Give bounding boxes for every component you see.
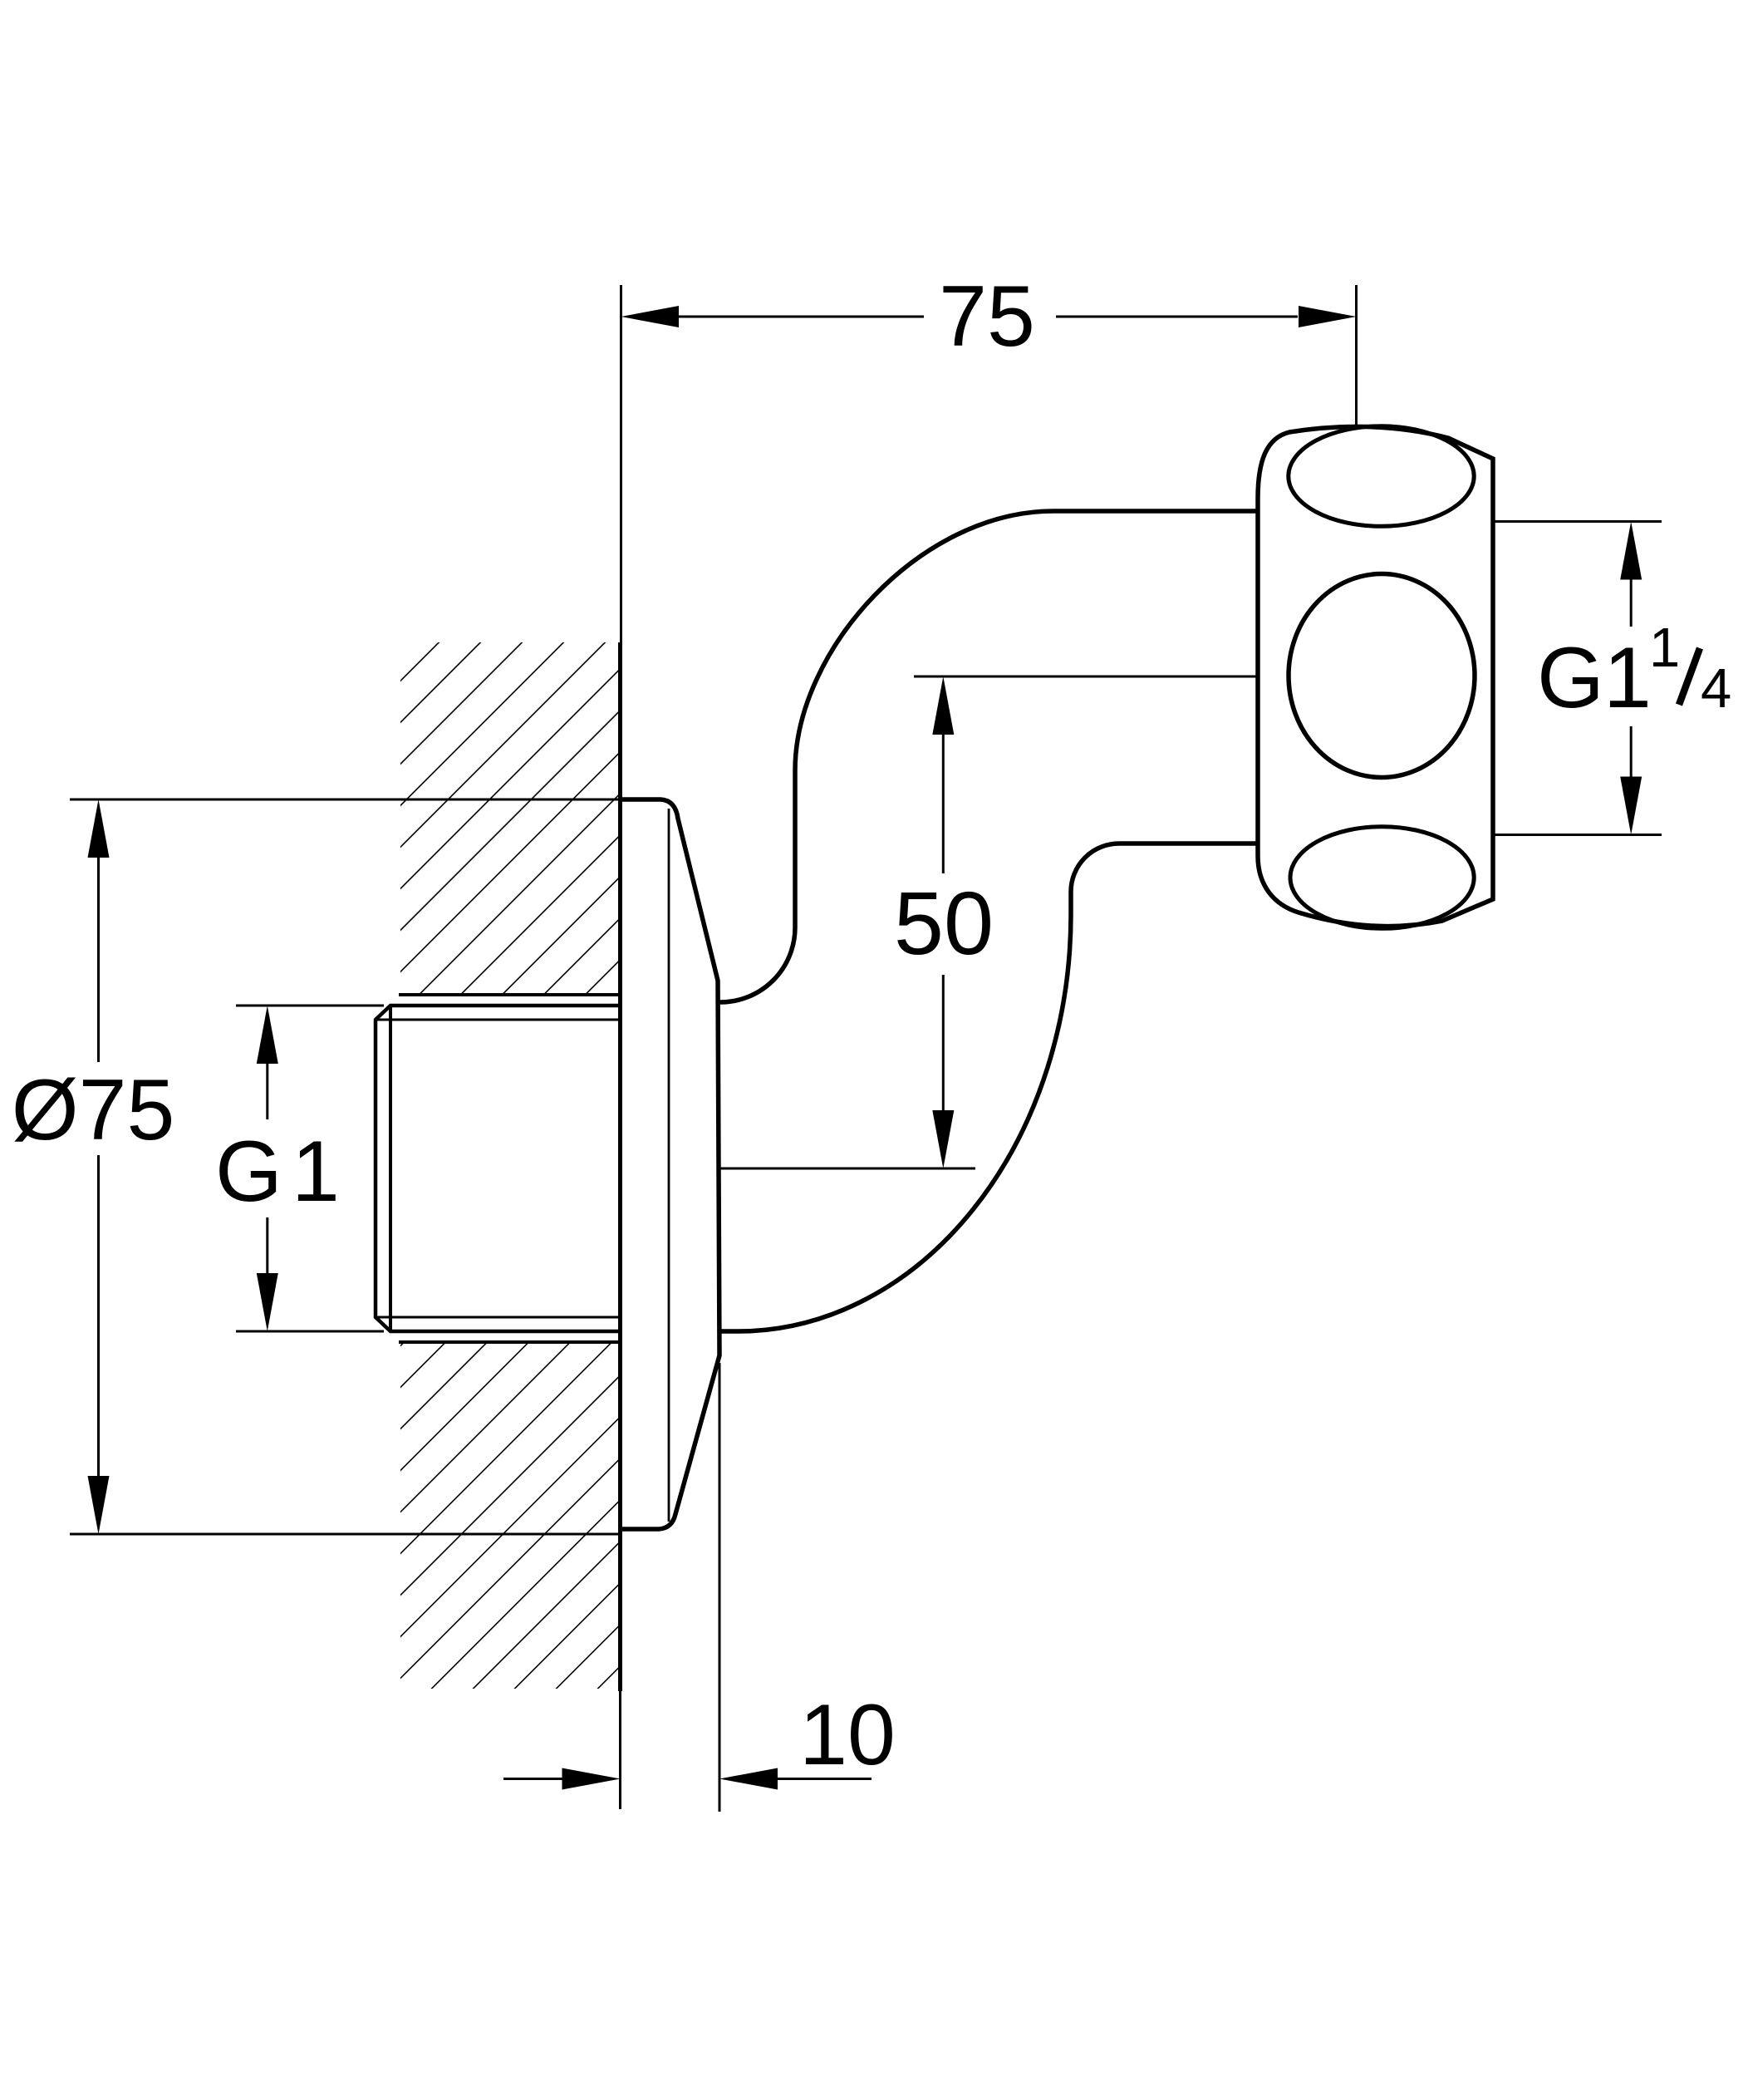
wall hole edge upper [399, 993, 618, 996]
wall hatching lower block [400, 1342, 620, 1689]
dimension 75 extension line right [1355, 285, 1358, 426]
flange base edge [668, 809, 670, 1522]
dimension 50 line lower segment [942, 975, 945, 1110]
dimension G1 line lower segment [266, 1217, 268, 1273]
dimension 75 arrow right [1299, 306, 1357, 327]
dimension 75 line right segment [1056, 316, 1298, 318]
svg-text:75: 75 [939, 268, 1035, 365]
dimension D75 line upper segment [97, 856, 100, 1062]
svg-text:4: 4 [1701, 657, 1731, 720]
dimension G1-1/4 line lower segment [1630, 726, 1633, 777]
dimension 10 line right tail [778, 1778, 872, 1780]
pipe lower outline [719, 843, 1258, 1331]
wall surface line [618, 642, 622, 1691]
thread G1 crest lines [376, 1019, 618, 1021]
pipe upper outline [719, 511, 1258, 1002]
dimension 50 line upper segment [942, 735, 945, 873]
svg-text:G: G [215, 1124, 282, 1220]
svg-text:50: 50 [894, 873, 994, 973]
svg-text:Ø75: Ø75 [12, 1062, 175, 1158]
wall hatching upper block [400, 642, 620, 994]
dimension G1-1/4 arrow down [1620, 777, 1642, 835]
dimension 50 arrow up [932, 676, 954, 735]
dimension 75 arrow left [621, 306, 680, 327]
nut middle boss ellipse [1289, 574, 1475, 778]
dimension G1-1/4 reference line top [1493, 520, 1662, 523]
dimension G1-1/4 label slash [1679, 648, 1700, 705]
dimension D75 reference line bottom [70, 1533, 620, 1536]
thread G1 chamfer boundary [389, 1006, 392, 1331]
dimension G1 arrow down [257, 1273, 278, 1331]
dimension D75 arrow down [88, 1476, 110, 1534]
flange (escutcheon) outline [620, 799, 719, 1529]
dimension 50 reference line bottom [719, 1168, 975, 1170]
svg-text:G: G [1537, 630, 1604, 726]
dimension G1 reference line bottom [236, 1330, 384, 1333]
dimension D75 arrow up [88, 799, 110, 858]
dimension 10 extension line right [719, 1363, 721, 1812]
dimension 10 line left tail [503, 1778, 563, 1780]
svg-text:1: 1 [1649, 617, 1680, 679]
dimension G1 arrow up [257, 1006, 278, 1064]
nut top opening ellipse [1289, 426, 1474, 527]
dimension G1-1/4 arrow up [1620, 522, 1642, 580]
nut bottom opening ellipse [1290, 827, 1474, 929]
thread G1 outline [376, 1006, 618, 1331]
dimension 75 extension line left [620, 285, 622, 642]
dimension D75 line lower segment [97, 1155, 100, 1478]
dimension G1 reference line top [236, 1005, 384, 1007]
dimension G1-1/4 line upper segment [1630, 579, 1633, 627]
dimension D75 reference line top [70, 799, 620, 801]
dimension 10 arrow pointing right [562, 1768, 621, 1790]
dimension 10 extension line left [619, 1691, 621, 1809]
dimension 50 arrow down [932, 1110, 954, 1168]
dimension G1 line upper segment [266, 1064, 268, 1119]
svg-text:1: 1 [1603, 630, 1652, 726]
dimension 10 arrow pointing left [719, 1768, 778, 1790]
union nut outline [1258, 426, 1493, 926]
svg-text:10: 10 [799, 1687, 896, 1783]
dimension 75 line left segment [677, 316, 924, 318]
dimension G1-1/4 reference line bottom [1493, 834, 1662, 836]
svg-text:1: 1 [292, 1124, 340, 1220]
wall hole edge lower [399, 1340, 618, 1344]
dimension 50 reference line top [914, 676, 1258, 678]
